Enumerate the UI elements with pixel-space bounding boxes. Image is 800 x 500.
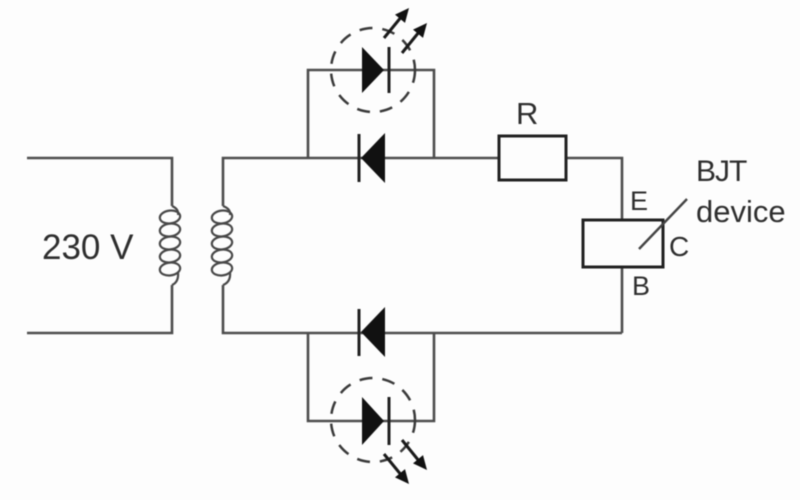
svg-text:230 V: 230 V (42, 228, 134, 267)
svg-text:BJT: BJT (696, 155, 747, 188)
svg-text:E: E (630, 186, 648, 216)
svg-text:device: device (696, 194, 786, 229)
svg-text:B: B (632, 271, 650, 301)
svg-text:C: C (669, 231, 689, 262)
svg-text:R: R (516, 96, 538, 131)
